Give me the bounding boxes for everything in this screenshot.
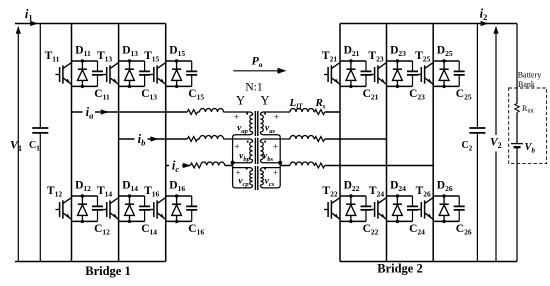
node D15 anode junction [175,59,178,62]
node D25 anode junction [442,59,445,62]
transistor T23 [371,63,387,85]
wire phase b secondary [289,138,387,140]
arrow V1 voltage annotation [17,28,19,262]
wire bridge1 leg 2 rail [118,24,120,262]
diode D21 [346,61,356,86]
svg-text:+: + [273,168,278,178]
node D11 anode junction [81,59,84,62]
capacitor C23 [407,61,418,86]
wire cell-top connector T23 [387,60,413,62]
wire cell-top connector T15 [166,60,192,62]
wire bridge2 top DC rail [340,23,517,25]
capacitor C26 [454,196,465,221]
transistor T22 [324,198,340,220]
label ia with arrow [83,106,96,119]
node D12 cathode junction [81,220,84,223]
transistor T13 [103,63,119,85]
node D15 cathode junction [175,85,178,88]
transformer primary winding v_bp [224,139,252,163]
transistor T25 [417,63,433,85]
diode D11 [78,61,88,86]
node D21 cathode junction [349,85,352,88]
wire phase c primary [166,165,233,167]
diode D12 [78,196,88,221]
transistor T21 [324,63,340,85]
resistor Rs phase b [315,137,325,142]
svg-text:N:1: N:1 [245,82,263,94]
wire cell-bottom connector T12 [72,220,98,222]
node D26 anode junction [442,194,445,197]
inductor phase c leakage (primary) [190,163,200,168]
diode D22 [346,196,356,221]
transistor T11 [56,63,72,85]
wire bridge1 bottom DC rail [15,261,166,263]
svg-text:+: + [273,142,278,152]
battery bank dashed box [509,88,547,164]
wire battery branch right vertical [516,24,518,262]
node primary neutral junction [231,161,235,165]
node D24 cathode junction [396,220,399,223]
wire bridge1 leg 3 rail [165,24,167,262]
node D12 anode junction [81,194,84,197]
node D23 anode junction [396,59,399,62]
arrow i2 on top rail [481,21,489,26]
capacitor C14 [139,196,150,221]
wire cell-top connector T21 [340,60,366,62]
node D24 anode junction [396,194,399,197]
battery Vb [511,143,523,145]
wire cell-top connector T14 [119,195,145,197]
wire bridge1 top DC rail [15,23,166,25]
svg-text:Battery: Battery [518,71,542,80]
inductor phase b leakage (primary) [187,137,197,142]
svg-text:Bridge 1: Bridge 1 [85,264,130,278]
wire phase a secondary [289,111,340,113]
diode D13 [125,61,135,86]
node D16 anode junction [175,194,178,197]
inductor phase a leakage (primary) [187,110,197,115]
diode D23 [393,61,403,86]
wire phase c secondary [280,165,433,167]
label ic with arrow [169,159,182,172]
diode D15 [172,61,182,86]
capacitor C15 [186,61,197,86]
wire cell-bottom connector T13 [119,85,145,87]
node D14 anode junction [128,194,131,197]
wire cell-top connector T12 [72,195,98,197]
wire cell-top connector T22 [340,195,366,197]
wire bridge2 leg 2 rail [386,24,388,262]
transistor T26 [417,198,433,220]
capacitor C24 [407,196,418,221]
node D11 cathode junction [81,85,84,88]
wire cell-top connector T26 [433,195,459,197]
wire cell-bottom connector T16 [166,220,192,222]
svg-text:+: + [235,168,240,178]
svg-text:Bridge 2: Bridge 2 [377,262,422,276]
wire cell-bottom connector T26 [433,220,459,222]
wire bridge2 bottom DC rail [340,261,517,263]
transformer primary winding v_cp [233,163,253,188]
transistor T12 [56,198,72,220]
capacitor C16 [186,196,197,221]
svg-text:Y: Y [260,94,269,108]
transistor T16 [150,198,166,220]
node D26 cathode junction [442,220,445,223]
wire bridge2 leg 1 rail [339,24,341,262]
wire bridge1 leg 1 rail [71,24,73,262]
capacitor C22 [361,196,372,221]
diode D24 [393,196,403,221]
node D25 cathode junction [442,85,445,88]
diode D26 [439,196,449,221]
node D22 anode junction [349,194,352,197]
inductor LlT phase c [290,162,314,165]
wire cell-bottom connector T25 [433,85,459,87]
wire phase a primary [72,111,225,113]
wire cell-top connector T25 [433,60,459,62]
transistor T14 [103,198,119,220]
node D14 cathode junction [128,220,131,223]
transformer secondary winding v_cs [260,163,280,188]
transistor T24 [371,198,387,220]
wire cell-top connector T16 [166,195,192,197]
arrow V2 voltage annotation [495,28,497,262]
wire cell-bottom connector T24 [387,220,413,222]
node D13 cathode junction [128,85,131,88]
capacitor C12 [92,196,103,221]
resistor Rs phase a [315,110,325,115]
diode D16 [172,196,182,221]
wire bridge2 leg 3 rail [432,24,434,262]
capacitor C25 [454,61,465,86]
transistor T15 [150,63,166,85]
svg-text:+: + [234,112,239,122]
label ib with arrow [135,133,148,146]
wire cell-bottom connector T14 [119,220,145,222]
wire cell-bottom connector T22 [340,220,366,222]
wire cell-bottom connector T15 [166,85,192,87]
arrow i1 on top rail [30,21,38,26]
node D22 cathode junction [349,220,352,223]
capacitor C13 [139,61,150,86]
svg-text:+: + [274,112,279,122]
svg-text:+: + [234,142,239,152]
wire phase b primary [119,138,225,140]
transformer secondary winding v_bs [260,139,288,163]
diode D14 [125,196,135,221]
arrow Po power flow [233,70,281,72]
inductor LlT phase b [290,136,314,139]
node secondary neutral junction [278,161,282,165]
node D16 cathode junction [175,220,178,223]
svg-text:Bank: Bank [518,80,535,89]
transformer secondary winding v_as [260,112,288,139]
diode D25 [439,61,449,86]
node D23 cathode junction [396,85,399,88]
resistor Rs phase c [315,163,325,168]
wire cell-top connector T13 [119,60,145,62]
wire cell-top connector T24 [387,195,413,197]
wire cell-bottom connector T11 [72,85,98,87]
svg-text:Y: Y [236,94,245,108]
capacitor C11 [92,61,103,86]
node D21 anode junction [349,59,352,62]
wire cell-top connector T11 [72,60,98,62]
capacitor C2 [476,24,478,262]
resistor Rint [515,104,519,113]
inductor LlT phase a [290,109,314,112]
wire cell-bottom connector T23 [387,85,413,87]
node D13 anode junction [128,59,131,62]
transformer core [255,111,257,190]
capacitor C21 [361,61,372,86]
capacitor C1 [39,24,41,262]
wire cell-bottom connector T21 [340,85,366,87]
transformer primary winding v_ap [224,112,252,139]
